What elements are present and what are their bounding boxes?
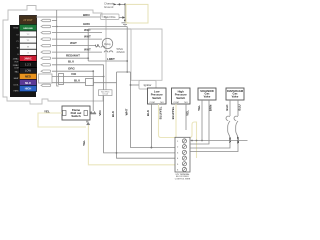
svg-text:BRN: BRN (83, 13, 90, 17)
svg-text:Switch: Switch (152, 96, 161, 100)
svg-text:COM: COM (173, 102, 178, 104)
svg-text:24VAC: 24VAC (13, 64, 19, 67)
svg-text:Circuit: Circuit (102, 93, 108, 96)
svg-text:GROUND: GROUND (23, 28, 33, 30)
svg-text:BLK: BLK (146, 109, 150, 116)
svg-text:LP: LP (95, 43, 99, 47)
svg-text:VIO: VIO (71, 72, 77, 76)
svg-text:Valve: Valve (204, 95, 211, 99)
diaphragm gas valve (226, 88, 244, 100)
svg-text:WHT: WHT (70, 41, 77, 45)
low pressure switch (148, 88, 167, 104)
wires right of block (191, 140, 248, 142)
svg-text:W: W (17, 48, 19, 50)
control board outline (3, 6, 106, 105)
svg-text:24 VOLT: 24 VOLT (23, 19, 33, 22)
terminal white 1 (20, 31, 37, 37)
svg-text:24VAC: 24VAC (13, 58, 19, 61)
svg-text:1 2 3: 1 2 3 (25, 63, 31, 67)
svg-text:WHT: WHT (125, 108, 129, 115)
terminal black 2 (20, 68, 37, 74)
WHT vertical (131, 72, 176, 148)
transformer box (126, 4, 148, 23)
svg-text:YEL: YEL (186, 110, 190, 116)
svg-text:LOW: LOW (25, 69, 31, 73)
wire BLU2 (52, 82, 86, 84)
svg-text:WHT: WHT (84, 48, 91, 52)
module right edge (131, 29, 162, 80)
svg-text:Switch: Switch (176, 96, 185, 100)
svg-text:MLO: MLO (25, 81, 31, 85)
vertical 88 (87, 29, 89, 61)
svg-text:WHT: WHT (236, 136, 240, 143)
terminal white 4 (20, 49, 37, 55)
wire VIO (52, 76, 104, 78)
terminal black 1 (20, 62, 37, 68)
svg-text:COM: COM (14, 68, 19, 70)
wire BLU (52, 64, 104, 66)
flame rollout switch (62, 106, 90, 120)
wire ORG (52, 70, 93, 72)
spade lugs (39, 19, 53, 86)
svg-text:BLU/YEL: BLU/YEL (171, 106, 175, 119)
svg-text:NO: NO (160, 102, 164, 104)
terminal purple (20, 80, 37, 86)
svg-text:24VAC: 24VAC (24, 58, 32, 61)
terminal orange (20, 74, 37, 80)
LPS BLU/YEL wire (159, 104, 197, 158)
svg-text:Valve: Valve (232, 95, 239, 99)
terminal blue (20, 86, 37, 92)
BLK drop from limit (117, 72, 176, 158)
svg-text:BLU/YEL: BLU/YEL (158, 106, 162, 119)
YEL disconnect (87, 122, 90, 125)
terminal white 3 (20, 43, 37, 49)
wire RED/WHT (52, 57, 88, 59)
LPS BLK wire (150, 104, 152, 148)
transformer circle (102, 38, 112, 48)
svg-text:24VAC: 24VAC (117, 50, 125, 54)
disconnects (226, 116, 238, 120)
svg-text:Y1: Y1 (16, 41, 18, 43)
wire GRN (52, 26, 127, 28)
ground vertical (124, 4, 126, 21)
svg-text:Ground: Ground (104, 5, 114, 9)
svg-text:G: G (27, 53, 29, 55)
vertical from board top (57, 10, 59, 86)
wire BRN (top, from 24V block) (36, 16, 101, 18)
terminal strip bottom black block (15, 92, 36, 98)
svg-text:HIGH: HIGH (25, 87, 32, 91)
terminal white 2 (20, 37, 37, 43)
svg-text:Field Wire: Field Wire (104, 15, 116, 19)
svg-text:VIO: VIO (228, 137, 232, 143)
top inner wire to module (88, 28, 131, 30)
ORG drop to rollout (92, 71, 94, 111)
svg-text:COM: COM (149, 102, 154, 104)
YEL wire left loop (38, 113, 86, 127)
chassis ground dots and line (117, 3, 125, 5)
svg-text:Ignitor: Ignitor (144, 83, 152, 87)
svg-text:EAC: EAC (15, 71, 20, 74)
svg-text:ORG: ORG (68, 67, 76, 71)
svg-text:YEL: YEL (197, 105, 201, 111)
svg-text:BLU: BLU (74, 78, 80, 82)
ignitor (139, 81, 156, 90)
svg-text:Relay: Relay (104, 42, 111, 46)
svg-text:CONTROL WIRE: CONTROL WIRE (175, 178, 191, 180)
LIMIT wire (88, 60, 127, 62)
solenoid gas valve (198, 88, 216, 100)
svg-text:GRN: GRN (83, 22, 90, 26)
svg-text:Switch: Switch (71, 114, 81, 118)
black bar white labels (13, 27, 20, 93)
terminal R (red) (20, 56, 37, 62)
field wire box (101, 14, 120, 20)
svg-text:BRN: BRN (209, 105, 213, 112)
svg-text:LIMIT: LIMIT (107, 57, 115, 61)
wires WHT x4 (52, 32, 102, 34)
svg-text:BLU: BLU (238, 104, 242, 110)
svg-text:HEAT: HEAT (14, 77, 20, 80)
svg-text:NO: NO (184, 102, 188, 104)
56TM box (99, 90, 113, 96)
svg-text:BLK: BLK (225, 104, 229, 111)
terminal block (175, 137, 190, 172)
YEL bottom run (88, 125, 175, 165)
connector symbol on VIO/BLU (59, 74, 64, 85)
svg-text:BLK: BLK (111, 110, 115, 117)
svg-text:WHT: WHT (84, 35, 91, 39)
terminal G (green) (20, 25, 37, 32)
svg-text:TSTAT: TSTAT (13, 27, 20, 30)
svg-text:MED: MED (25, 75, 31, 79)
terminal 24V (brown) (20, 16, 37, 25)
ground symbol (122, 23, 129, 26)
svg-text:COOL: COOL (13, 85, 18, 87)
svg-text:YEL: YEL (82, 140, 86, 146)
svg-text:PARK: PARK (14, 90, 20, 93)
S-curve wires (191, 121, 231, 148)
svg-text:BLU: BLU (68, 60, 74, 64)
svg-text:RED/WHT: RED/WHT (66, 54, 80, 58)
terminal strip black bar (10, 25, 20, 97)
svg-text:Y2: Y2 (16, 35, 18, 37)
VIO vertical (104, 65, 175, 153)
svg-text:VIO: VIO (98, 110, 102, 116)
high pressure switch (172, 88, 191, 104)
